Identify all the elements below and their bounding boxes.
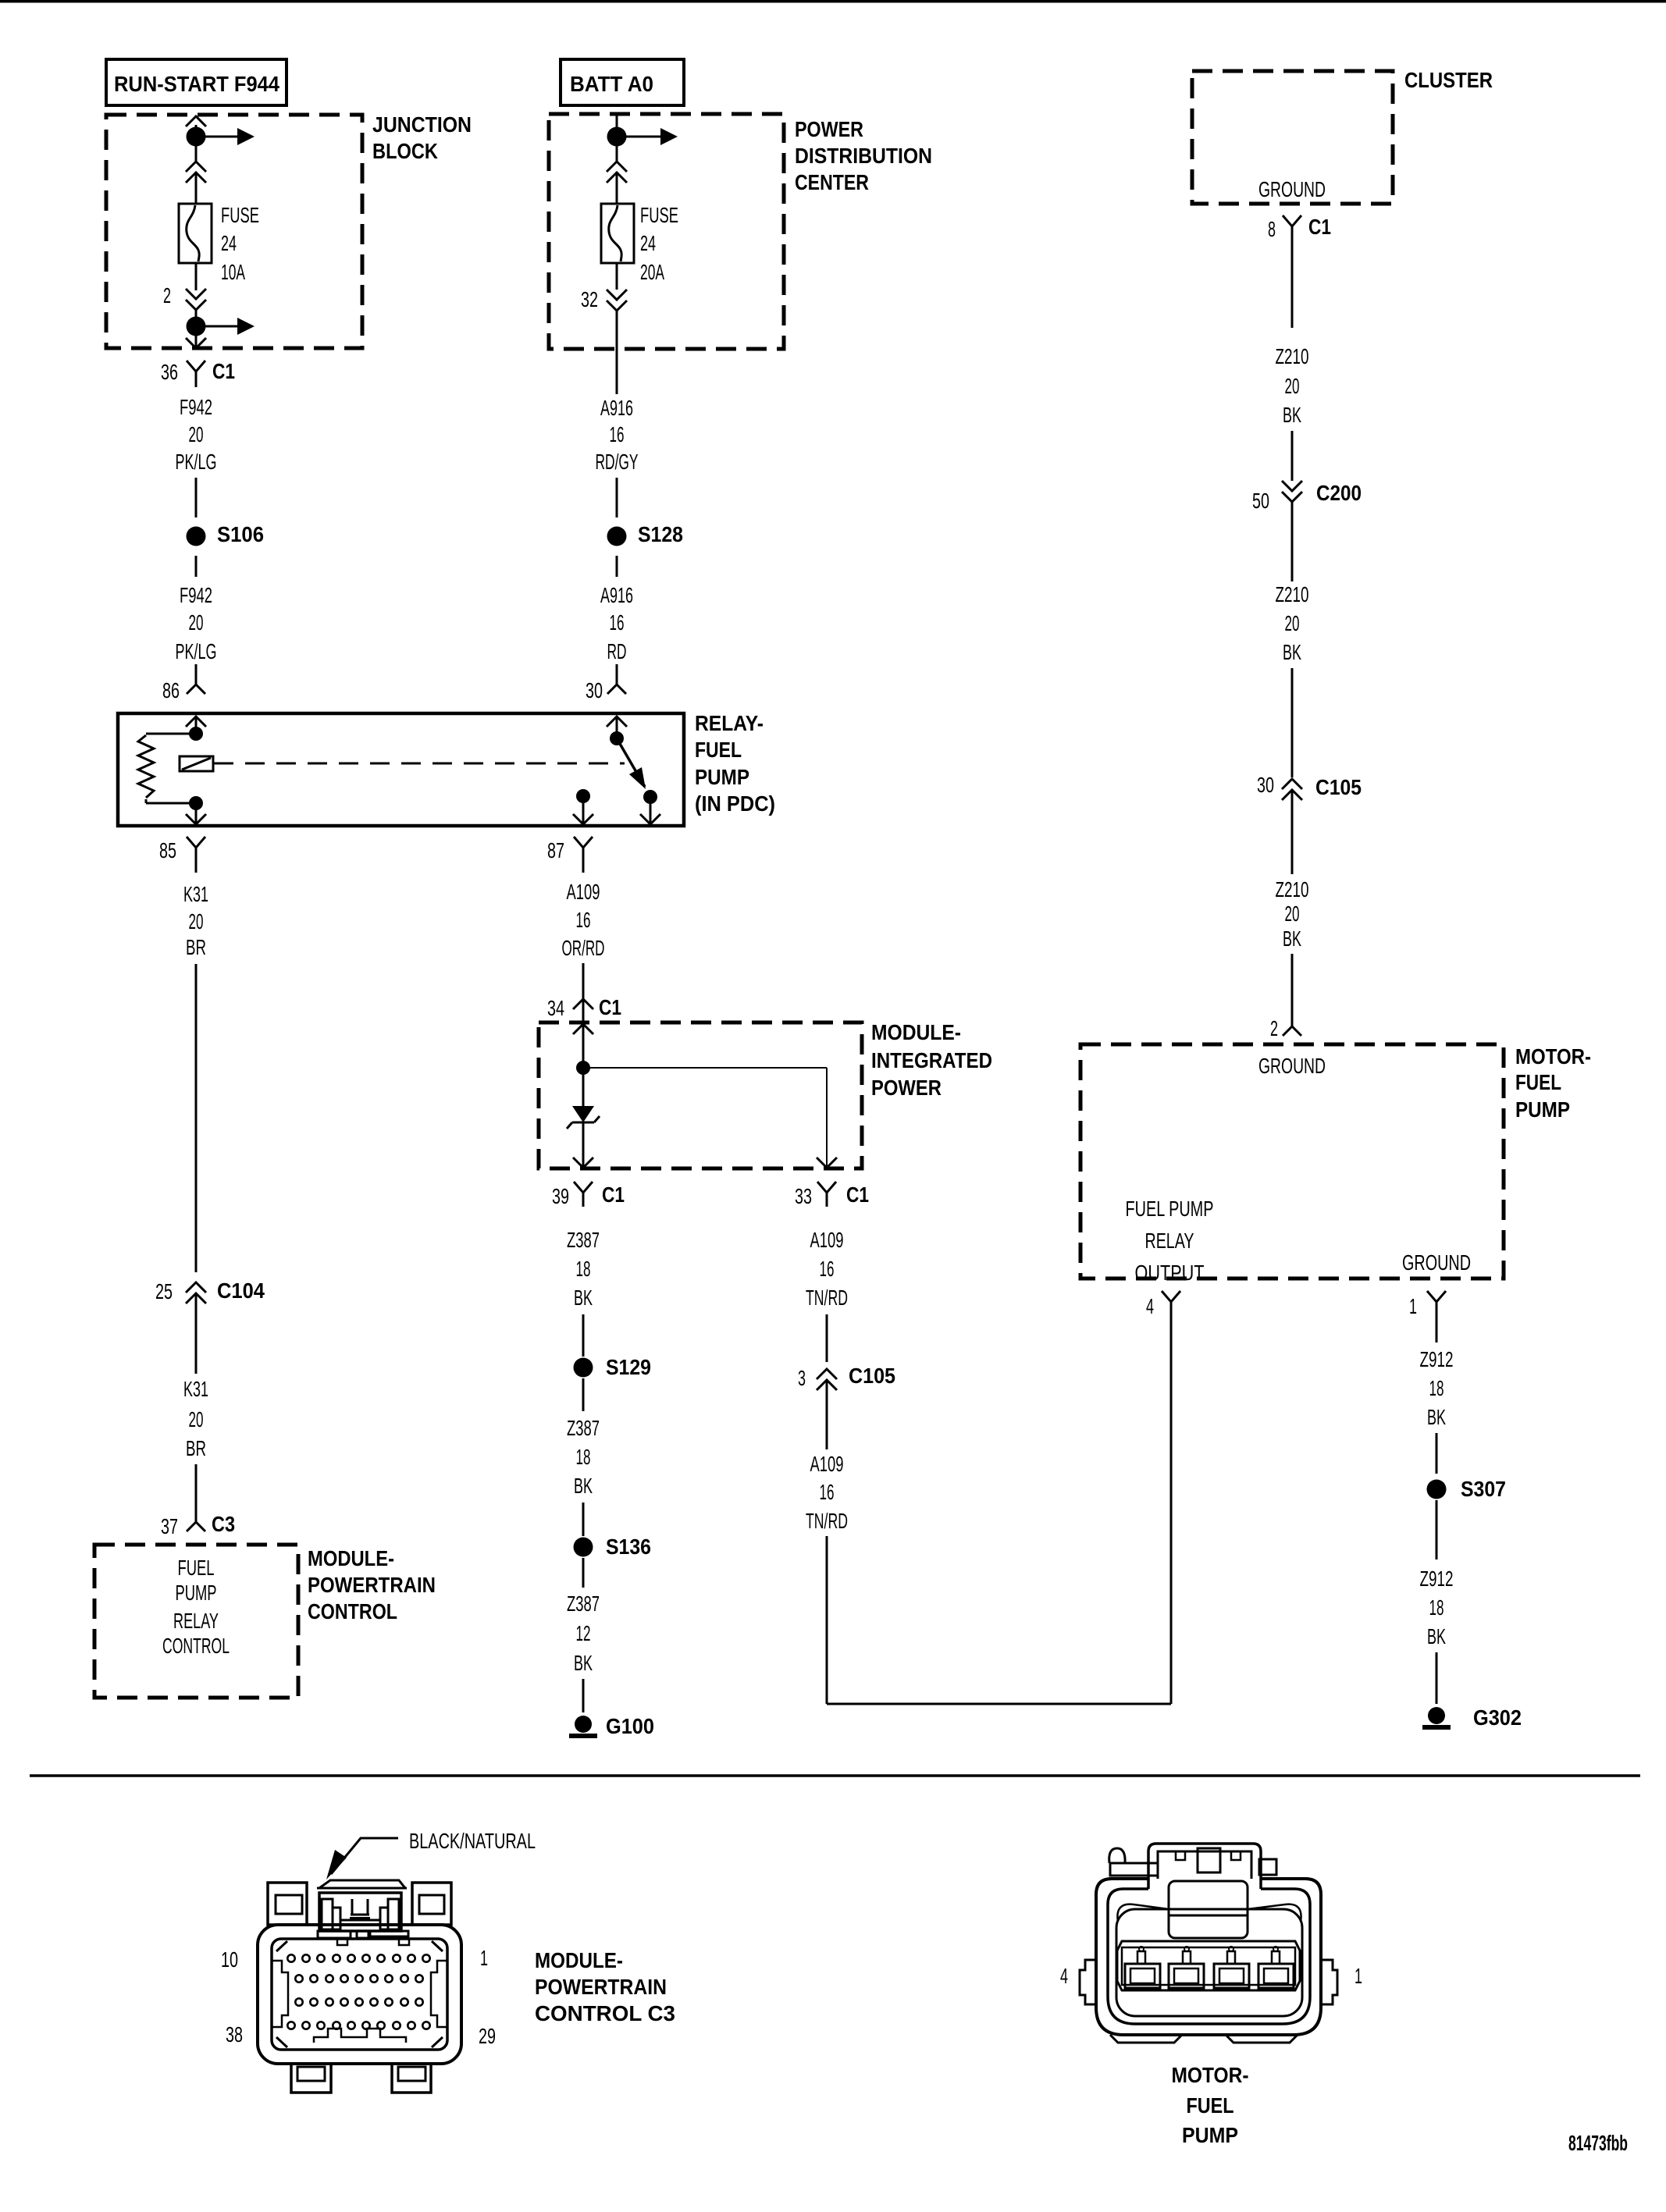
svg-text:F942: F942 xyxy=(180,395,212,419)
svg-text:BK: BK xyxy=(574,1286,593,1310)
svg-text:BATT A0: BATT A0 xyxy=(570,72,653,96)
svg-text:1: 1 xyxy=(1355,1964,1362,1988)
svg-text:RELAY: RELAY xyxy=(173,1609,219,1633)
svg-text:1: 1 xyxy=(480,1946,488,1970)
svg-text:85: 85 xyxy=(159,838,176,862)
svg-text:RD: RD xyxy=(607,639,627,663)
svg-text:PUMP: PUMP xyxy=(1515,1097,1570,1122)
svg-text:50: 50 xyxy=(1252,489,1269,513)
svg-text:BLOCK: BLOCK xyxy=(372,139,438,163)
svg-text:4: 4 xyxy=(1146,1294,1154,1318)
svg-text:10: 10 xyxy=(221,1947,238,1972)
svg-text:CONTROL: CONTROL xyxy=(162,1634,230,1658)
svg-text:TN/RD: TN/RD xyxy=(806,1509,848,1533)
svg-text:PK/LG: PK/LG xyxy=(176,639,217,663)
svg-text:BR: BR xyxy=(186,935,206,959)
svg-text:24: 24 xyxy=(221,231,237,255)
svg-text:POWER: POWER xyxy=(871,1076,942,1100)
svg-text:FUEL: FUEL xyxy=(1515,1070,1561,1094)
svg-text:30: 30 xyxy=(586,678,603,702)
svg-text:10A: 10A xyxy=(221,260,245,284)
svg-text:CENTER: CENTER xyxy=(795,170,869,194)
svg-text:GROUND: GROUND xyxy=(1258,177,1326,201)
svg-text:A109: A109 xyxy=(567,880,600,904)
svg-text:16: 16 xyxy=(576,908,591,932)
svg-text:S129: S129 xyxy=(606,1355,651,1379)
svg-text:A109: A109 xyxy=(810,1452,844,1476)
svg-text:BK: BK xyxy=(1283,640,1301,664)
svg-text:POWERTRAIN: POWERTRAIN xyxy=(535,1975,667,1999)
svg-text:24: 24 xyxy=(640,231,656,255)
svg-text:87: 87 xyxy=(547,838,564,862)
svg-text:1: 1 xyxy=(1409,1294,1417,1318)
svg-text:C1: C1 xyxy=(212,359,235,383)
svg-text:RUN-START F944: RUN-START F944 xyxy=(114,72,279,96)
svg-text:C104: C104 xyxy=(217,1278,265,1303)
svg-text:TN/RD: TN/RD xyxy=(806,1286,848,1310)
svg-text:30: 30 xyxy=(1257,773,1274,797)
svg-text:29: 29 xyxy=(479,2024,496,2048)
svg-text:BK: BK xyxy=(1283,403,1301,427)
svg-text:Z387: Z387 xyxy=(567,1416,600,1440)
svg-text:C1: C1 xyxy=(1308,215,1331,239)
svg-text:A916: A916 xyxy=(600,583,633,607)
svg-text:G100: G100 xyxy=(606,1714,654,1738)
svg-text:CONTROL C3: CONTROL C3 xyxy=(535,2001,675,2025)
svg-text:18: 18 xyxy=(1429,1376,1444,1400)
svg-text:C1: C1 xyxy=(599,995,621,1019)
svg-text:GROUND: GROUND xyxy=(1258,1054,1326,1078)
svg-text:20: 20 xyxy=(189,1407,204,1431)
svg-text:A916: A916 xyxy=(600,396,633,420)
svg-text:FUSE: FUSE xyxy=(640,203,678,227)
svg-text:18: 18 xyxy=(1429,1595,1444,1620)
svg-text:FUSE: FUSE xyxy=(221,203,259,227)
svg-text:16: 16 xyxy=(610,422,625,446)
svg-text:POWERTRAIN: POWERTRAIN xyxy=(308,1573,436,1597)
svg-text:RELAY-: RELAY- xyxy=(695,711,764,735)
svg-text:Z387: Z387 xyxy=(567,1228,600,1252)
svg-text:BLACK/NATURAL: BLACK/NATURAL xyxy=(409,1829,536,1853)
svg-text:12: 12 xyxy=(576,1621,591,1645)
svg-text:20: 20 xyxy=(1285,902,1300,926)
svg-text:PUMP: PUMP xyxy=(176,1581,217,1605)
svg-text:K31: K31 xyxy=(183,1377,208,1401)
svg-text:86: 86 xyxy=(162,678,180,702)
svg-text:20: 20 xyxy=(1285,611,1300,635)
svg-text:MODULE-: MODULE- xyxy=(308,1546,394,1570)
svg-text:CLUSTER: CLUSTER xyxy=(1404,68,1493,92)
svg-text:18: 18 xyxy=(576,1257,591,1281)
svg-text:C105: C105 xyxy=(849,1364,895,1388)
svg-text:Z210: Z210 xyxy=(1276,877,1309,902)
svg-text:RELAY: RELAY xyxy=(1145,1229,1194,1253)
svg-text:BK: BK xyxy=(1427,1405,1446,1429)
svg-text:38: 38 xyxy=(226,2022,243,2047)
svg-text:16: 16 xyxy=(610,610,625,635)
svg-text:32: 32 xyxy=(581,287,598,311)
svg-text:PUMP: PUMP xyxy=(695,765,749,789)
svg-text:39: 39 xyxy=(552,1184,569,1208)
svg-text:F942: F942 xyxy=(180,583,212,607)
svg-text:37: 37 xyxy=(161,1514,178,1538)
svg-text:34: 34 xyxy=(547,996,564,1020)
svg-text:MOTOR-: MOTOR- xyxy=(1515,1044,1591,1069)
svg-text:FUEL: FUEL xyxy=(178,1556,215,1580)
svg-text:DISTRIBUTION: DISTRIBUTION xyxy=(795,144,932,168)
svg-text:OUTPUT: OUTPUT xyxy=(1135,1261,1205,1285)
svg-text:81473fbb: 81473fbb xyxy=(1568,2131,1628,2155)
svg-text:16: 16 xyxy=(820,1257,835,1281)
svg-text:C1: C1 xyxy=(602,1182,625,1207)
svg-text:OR/RD: OR/RD xyxy=(562,936,605,960)
svg-text:Z210: Z210 xyxy=(1276,582,1309,606)
svg-text:Z912: Z912 xyxy=(1420,1347,1454,1371)
svg-text:S307: S307 xyxy=(1461,1477,1506,1501)
svg-text:GROUND: GROUND xyxy=(1402,1250,1471,1275)
svg-text:25: 25 xyxy=(155,1279,173,1303)
svg-text:S136: S136 xyxy=(606,1535,651,1559)
svg-text:C200: C200 xyxy=(1316,481,1362,505)
svg-text:2: 2 xyxy=(1270,1016,1278,1040)
svg-text:2: 2 xyxy=(163,283,171,308)
svg-text:Z387: Z387 xyxy=(567,1591,600,1616)
svg-text:20: 20 xyxy=(189,909,204,934)
svg-text:G302: G302 xyxy=(1473,1705,1522,1730)
svg-text:BK: BK xyxy=(574,1651,593,1675)
svg-text:RD/GY: RD/GY xyxy=(596,450,639,474)
svg-text:A109: A109 xyxy=(810,1228,844,1252)
svg-text:BK: BK xyxy=(1427,1624,1446,1648)
svg-text:C1: C1 xyxy=(846,1182,869,1207)
svg-text:20A: 20A xyxy=(640,260,664,284)
svg-text:8: 8 xyxy=(1268,217,1276,241)
svg-text:MODULE-: MODULE- xyxy=(535,1948,623,1972)
svg-text:JUNCTION: JUNCTION xyxy=(372,112,472,137)
svg-text:Z210: Z210 xyxy=(1276,344,1309,368)
svg-text:FUEL PUMP: FUEL PUMP xyxy=(1126,1197,1214,1221)
svg-text:MODULE-: MODULE- xyxy=(871,1020,961,1044)
svg-text:K31: K31 xyxy=(183,882,208,906)
svg-text:(IN PDC): (IN PDC) xyxy=(695,791,775,816)
svg-text:18: 18 xyxy=(576,1445,591,1469)
svg-text:FUEL: FUEL xyxy=(695,738,742,762)
svg-text:S128: S128 xyxy=(638,522,683,546)
svg-text:PUMP: PUMP xyxy=(1182,2123,1238,2147)
svg-text:Z912: Z912 xyxy=(1420,1567,1454,1591)
svg-text:POWER: POWER xyxy=(795,117,863,141)
svg-text:20: 20 xyxy=(189,422,204,446)
svg-text:MOTOR-: MOTOR- xyxy=(1172,2063,1249,2087)
svg-text:20: 20 xyxy=(189,610,204,635)
svg-text:3: 3 xyxy=(798,1366,806,1390)
svg-text:16: 16 xyxy=(820,1480,835,1504)
svg-text:20: 20 xyxy=(1285,374,1300,398)
svg-text:4: 4 xyxy=(1060,1964,1068,1988)
svg-text:FUEL: FUEL xyxy=(1187,2093,1234,2118)
svg-text:S106: S106 xyxy=(217,522,264,546)
svg-text:PK/LG: PK/LG xyxy=(176,450,217,474)
svg-text:BK: BK xyxy=(1283,926,1301,951)
svg-text:C3: C3 xyxy=(212,1512,235,1536)
svg-text:BR: BR xyxy=(186,1436,206,1460)
svg-text:CONTROL: CONTROL xyxy=(308,1599,397,1623)
svg-text:INTEGRATED: INTEGRATED xyxy=(871,1048,992,1072)
svg-text:BK: BK xyxy=(574,1474,593,1498)
svg-text:33: 33 xyxy=(795,1184,812,1208)
svg-text:C105: C105 xyxy=(1315,775,1362,799)
svg-text:36: 36 xyxy=(161,360,178,384)
